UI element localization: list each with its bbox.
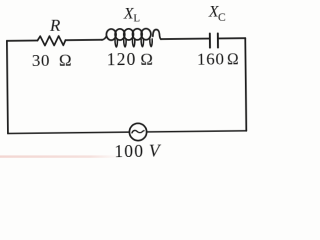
inductor L coil turn 5 [141,29,151,40]
wire inductor to capacitor [161,38,209,41]
svg-text:160: 160 [197,49,225,68]
svg-text:Ω: Ω [227,49,239,68]
svg-text:C: C [218,12,226,24]
svg-text:30: 30 [32,51,50,70]
inductor L coil dip 1 [115,39,117,47]
inductor L coil turn 2 [115,29,125,40]
inductor L coil dip 3 [132,39,134,47]
inductor L coil dip 4 [141,39,143,47]
wire resistor to inductor [65,39,102,41]
svg-text:100: 100 [114,141,144,161]
wire right edge of loop [245,38,246,131]
wire bottom edge of loop [8,131,246,134]
inductor L coil lead-out hook [153,30,161,40]
resistor R zigzag [37,36,65,46]
svg-text:120: 120 [107,49,137,69]
inductor L coil turn 4 [132,29,142,40]
inductor L coil dip 2 [124,39,126,47]
AC source sine symbol [132,130,144,133]
wire capacitor to top-right corner [219,37,245,39]
svg-text:Ω: Ω [59,51,72,70]
inductor L coil lead-in [102,36,107,40]
svg-text:R: R [49,16,61,35]
capacitor C right plate [217,33,219,47]
capacitor C left plate [209,33,211,47]
wire top-left segment [7,40,38,42]
inductor L coil turn 3 [124,29,134,40]
wire left edge of loop [7,41,8,134]
svg-text:Ω: Ω [140,50,153,69]
svg-text:L: L [133,13,140,25]
inductor L coil dip 5 [150,39,152,47]
inductor L coil turn 1 [106,29,116,40]
AC source circle [129,123,146,140]
